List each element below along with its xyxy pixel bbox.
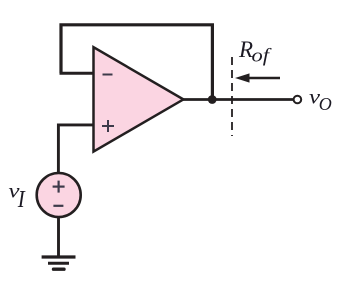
svg-text:O: O [319, 94, 332, 114]
svg-text:I: I [17, 187, 26, 213]
